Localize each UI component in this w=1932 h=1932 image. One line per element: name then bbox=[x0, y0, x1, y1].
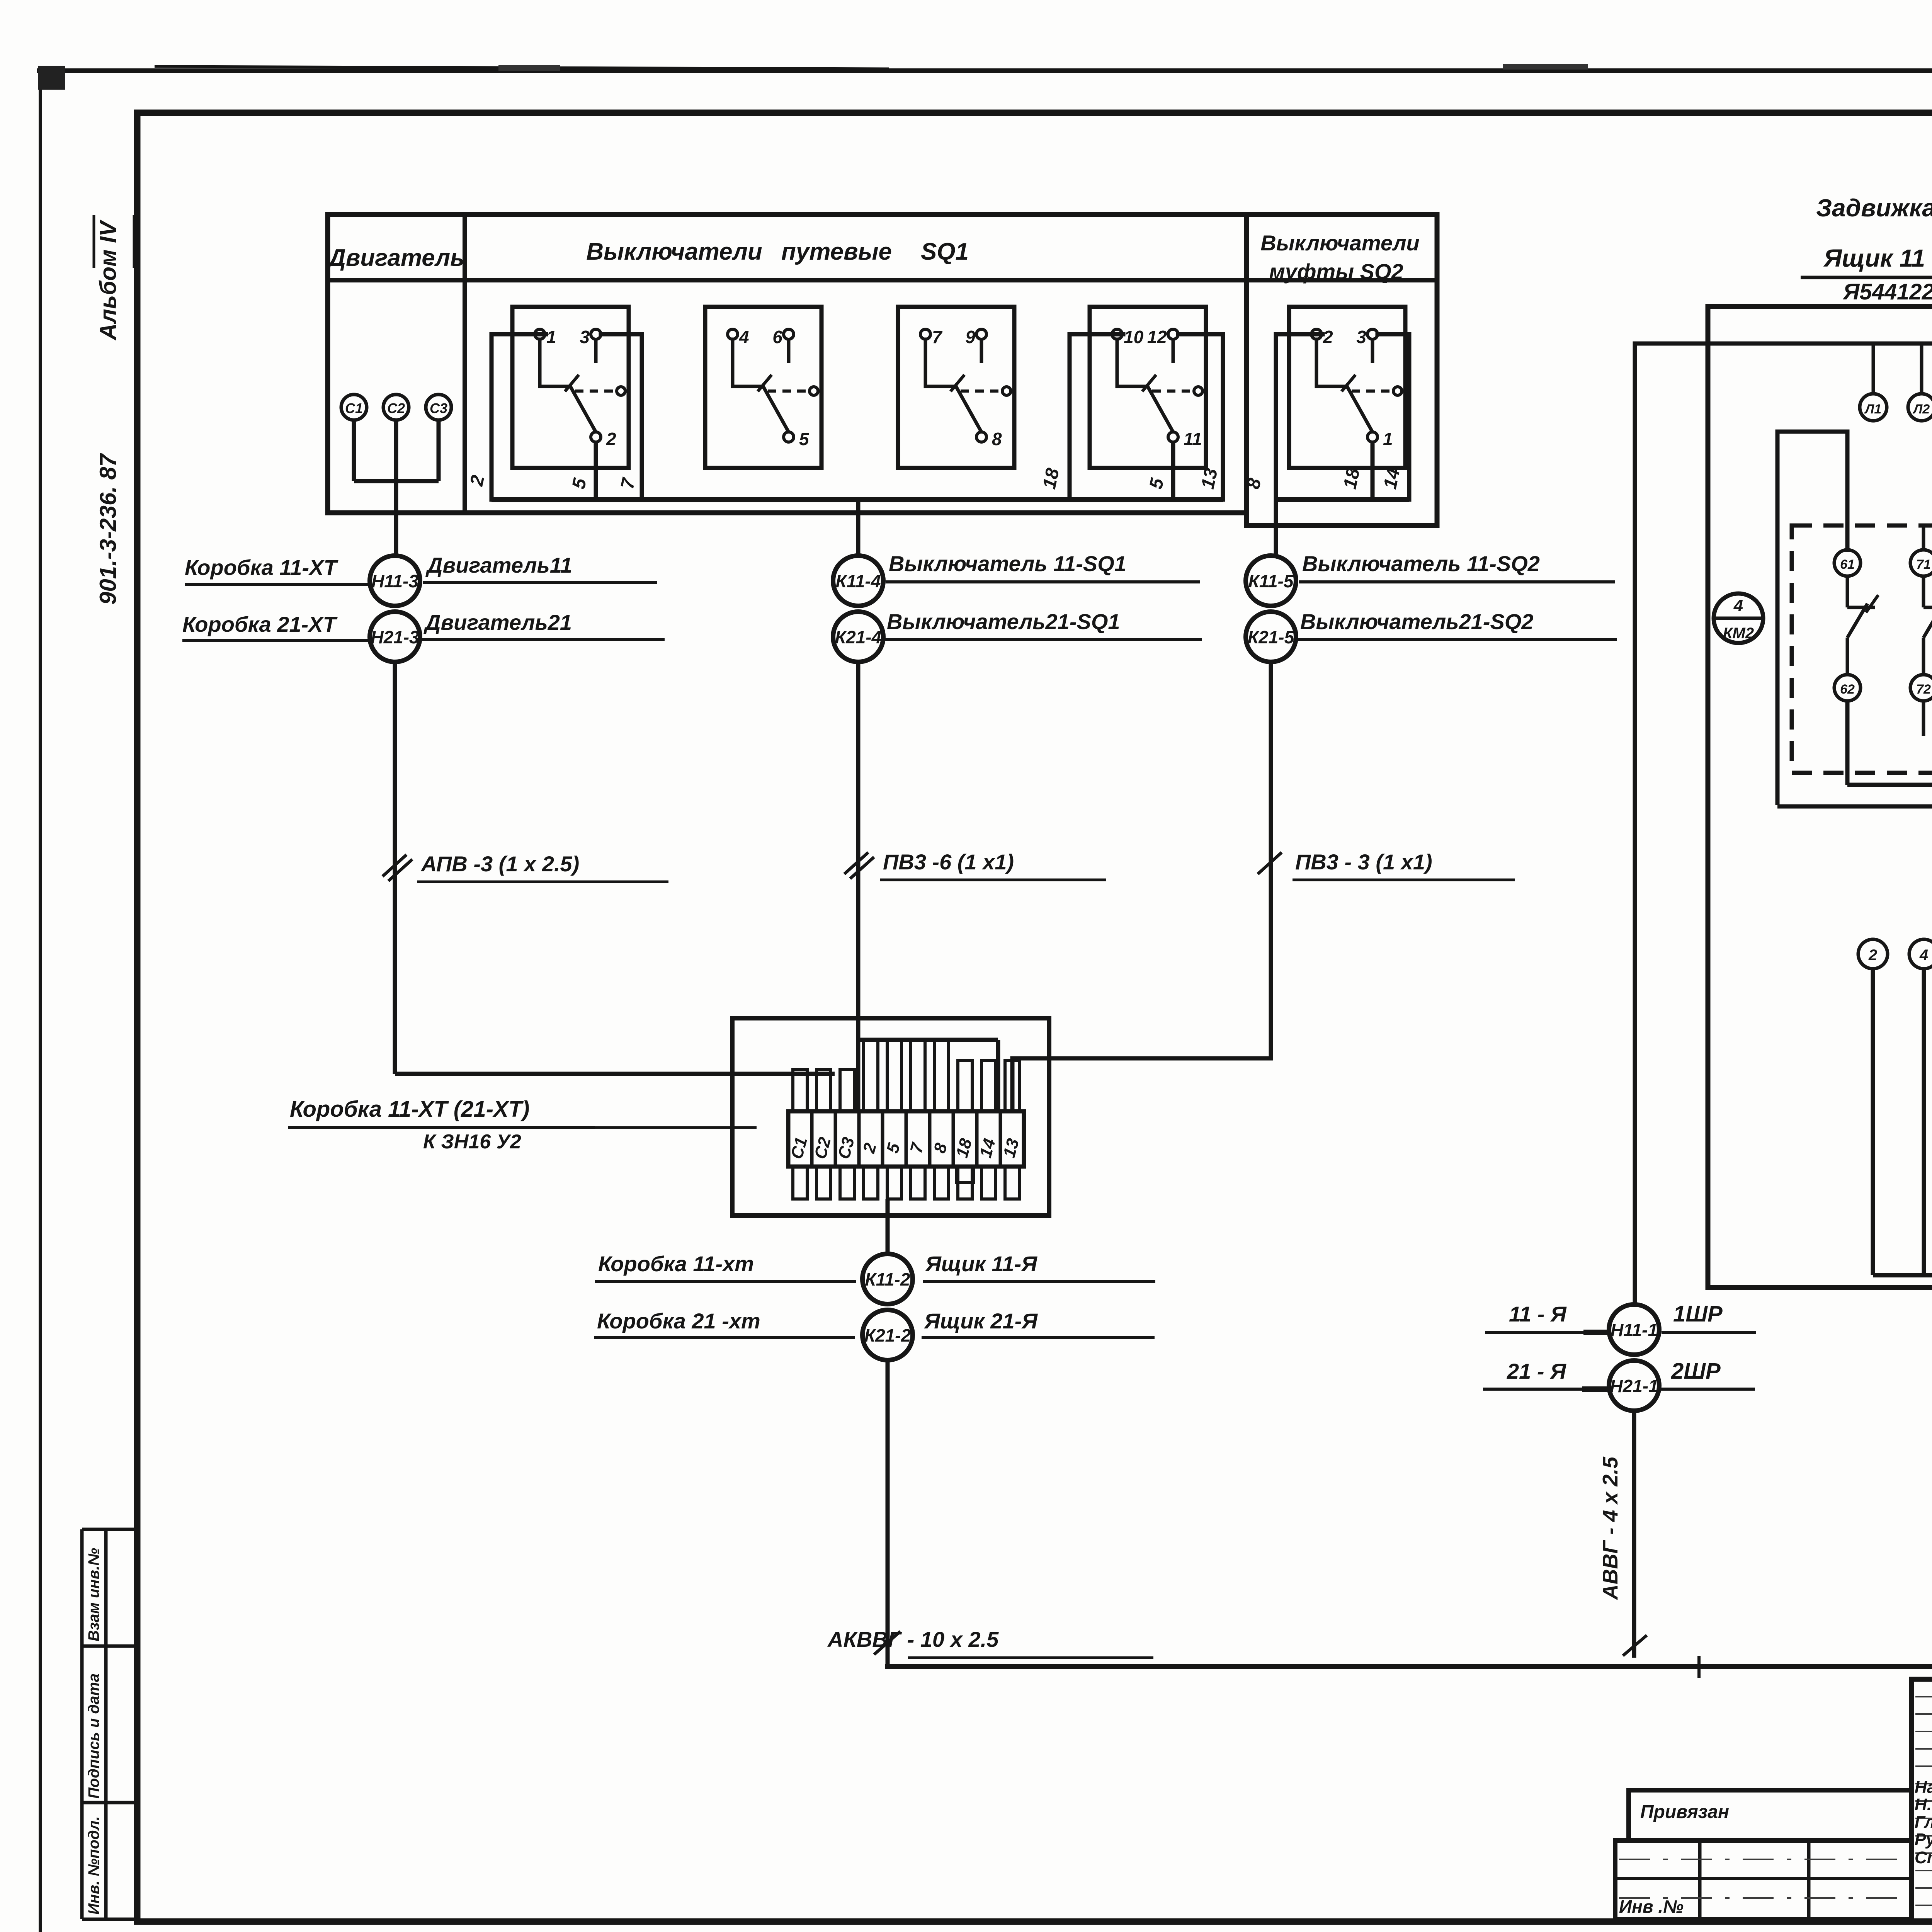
wire bbox=[394, 420, 398, 481]
connector H21-3 bbox=[370, 612, 420, 662]
wire switch5 left leg down to K11-5 bbox=[1276, 334, 1323, 556]
wire switch4 bottom leg bbox=[1171, 442, 1175, 500]
wire bus drop to K11-4 bbox=[856, 500, 861, 556]
wire C2 down to connector H11-3 bbox=[394, 481, 398, 556]
svg-text:Задвижка 11 ( 21): Задвижка 11 ( 21) bbox=[1816, 194, 1932, 222]
wire bbox=[1871, 969, 1875, 1275]
switch actuator dashed link bbox=[1352, 389, 1393, 393]
svg-text:Выключатели: Выключатели bbox=[1260, 231, 1420, 255]
wire switch4 left leg bbox=[1070, 334, 1123, 500]
wire stub bbox=[1371, 339, 1374, 363]
ruled row line bbox=[1915, 1713, 1932, 1715]
svg-text:11 - Я: 11 - Я bbox=[1509, 1302, 1567, 1326]
lamp circle L2 bbox=[1908, 394, 1932, 421]
ruled row line bbox=[1915, 1852, 1932, 1854]
svg-text:6: 6 bbox=[772, 327, 782, 347]
connector K21-5 bbox=[1246, 612, 1296, 662]
svg-text:Выключатель21-SQ1: Выключатель21-SQ1 bbox=[887, 609, 1120, 634]
svg-text:Привязан: Привязан bbox=[1640, 1802, 1729, 1822]
connector K11-2 bbox=[862, 1254, 913, 1304]
aux contact terminal 72 bbox=[1910, 675, 1932, 701]
svg-text:К21-2: К21-2 bbox=[864, 1325, 911, 1345]
svg-text:Ящик 21-Я: Ящик 21-Я bbox=[923, 1309, 1038, 1333]
svg-text:муфты SQ2: муфты SQ2 bbox=[1269, 259, 1403, 284]
svg-text:2: 2 bbox=[1868, 947, 1877, 964]
wire switch5 right leg bbox=[1378, 334, 1409, 500]
svg-text:путевые: путевые bbox=[781, 238, 892, 265]
svg-text:8: 8 bbox=[992, 429, 1002, 449]
aux contact terminal 71 bbox=[1910, 550, 1932, 576]
svg-text:Выключатель 11-SQ1: Выключатель 11-SQ1 bbox=[889, 551, 1126, 576]
wire K11-4 teeth bar bbox=[858, 1038, 998, 1042]
wire H21-1 down AVVG cable bbox=[1632, 1411, 1636, 1658]
table divider motor column bbox=[463, 214, 467, 513]
table SQ2 column outline bbox=[1247, 214, 1437, 526]
svg-text:SQ1: SQ1 bbox=[921, 238, 969, 265]
terminal tooth lower bbox=[793, 1167, 807, 1199]
wire switch1 bottom leg bbox=[594, 442, 598, 500]
ruled row line bbox=[1915, 1818, 1932, 1819]
wire riser from Л bus down to H11-1 bbox=[1633, 344, 1637, 1304]
svg-text:Гл.спец.: Гл.спец. bbox=[1915, 1813, 1932, 1832]
table header line bbox=[328, 278, 1437, 282]
svg-text:4: 4 bbox=[1733, 596, 1743, 615]
wire stub bbox=[1172, 339, 1175, 363]
svg-text:9: 9 bbox=[965, 327, 975, 347]
switch terminal 3 bbox=[591, 329, 601, 339]
svg-text:13: 13 bbox=[1197, 466, 1222, 491]
svg-text:12: 12 bbox=[1147, 327, 1167, 347]
svg-text:1ШР: 1ШР bbox=[1673, 1301, 1723, 1327]
wire switch4 right leg bbox=[1178, 334, 1223, 500]
border frame outer left edge bbox=[39, 71, 42, 1932]
dashed contact block outline bbox=[1792, 526, 1932, 773]
terminal tooth upper bbox=[864, 1040, 878, 1111]
terminal tooth upper bbox=[887, 1040, 901, 1111]
switch terminal 3 bbox=[1367, 329, 1378, 339]
svg-text:Выключатели: Выключатели bbox=[586, 238, 762, 265]
margin stamp table bbox=[80, 1529, 84, 1919]
connector K21-4 bbox=[833, 612, 883, 662]
wire contact2 bottom stub bbox=[1922, 701, 1925, 736]
ruled row line bbox=[1915, 1696, 1932, 1697]
switch blade bbox=[733, 339, 763, 386]
svg-text:Двигатель21: Двигатель21 bbox=[423, 610, 572, 634]
wire switch5 bottom leg bbox=[1371, 442, 1375, 500]
svg-text:4: 4 bbox=[1919, 947, 1928, 964]
connector H21-1 bbox=[1609, 1361, 1659, 1411]
terminal notch cell 18 bbox=[956, 1167, 974, 1182]
svg-text:Н21-1: Н21-1 bbox=[1610, 1376, 1658, 1396]
wire switch1 left leg bbox=[492, 334, 546, 500]
wire contact2 top stub bbox=[1922, 526, 1925, 550]
svg-text:10: 10 bbox=[1124, 327, 1144, 347]
motor terminal С2 bbox=[383, 395, 409, 420]
wire lamp drop L2 bbox=[1920, 344, 1923, 394]
switch terminal 4 bbox=[728, 329, 738, 339]
wire switch1 right leg bbox=[601, 334, 642, 500]
svg-text:18: 18 bbox=[1340, 466, 1364, 491]
svg-text:Н11-3: Н11-3 bbox=[371, 571, 418, 591]
svg-text:Коробка 11-ХТ: Коробка 11-ХТ bbox=[185, 555, 338, 580]
switch blade bbox=[925, 339, 956, 386]
wire SQ2 bus bbox=[1276, 497, 1409, 502]
svg-text:Я54412274: Я54412274 bbox=[1842, 279, 1932, 304]
terminal tooth lower bbox=[981, 1167, 996, 1199]
wire bbox=[437, 420, 441, 481]
terminal tooth lower bbox=[840, 1167, 854, 1199]
spare wire terminal 2 bbox=[1858, 939, 1888, 969]
wire contact1 bottom to 718 bbox=[1845, 701, 1850, 785]
wire K21-4 down to korobka box bbox=[856, 662, 861, 1111]
svg-text:Подпись и дата: Подпись и дата bbox=[85, 1673, 102, 1799]
svg-text:1: 1 bbox=[546, 327, 556, 347]
svg-text:Коробка 21 -хт: Коробка 21 -хт bbox=[597, 1309, 760, 1333]
svg-text:14: 14 bbox=[1380, 466, 1404, 491]
wire contact1 top elbow bbox=[1777, 432, 1847, 803]
svg-text:11: 11 bbox=[1184, 429, 1202, 449]
contact blade bbox=[1846, 576, 1849, 607]
svg-text:Выключатель21-SQ2: Выключатель21-SQ2 bbox=[1300, 609, 1534, 634]
svg-text:К ЗН16 У2: К ЗН16 У2 bbox=[423, 1131, 521, 1153]
svg-text:Коробка 11-ХТ (21-ХТ): Коробка 11-ХТ (21-ХТ) bbox=[290, 1097, 529, 1122]
svg-text:С2: С2 bbox=[387, 400, 405, 416]
terminal tooth upper bbox=[793, 1070, 807, 1111]
svg-text:К11-2: К11-2 bbox=[865, 1269, 910, 1289]
wire bbox=[352, 420, 356, 481]
switch actuator dashed link bbox=[768, 389, 809, 393]
terminal strip K3N16U2 bbox=[788, 1111, 1024, 1167]
revision table box bbox=[1615, 1840, 1912, 1919]
svg-text:901.-3-236. 87: 901.-3-236. 87 bbox=[95, 453, 121, 605]
wire K21-2 down to bus bbox=[886, 1360, 890, 1667]
ruled row line bbox=[1915, 1731, 1932, 1732]
terminal tooth lower bbox=[911, 1167, 925, 1199]
limit switch box contacts 7-9-8 bbox=[898, 307, 1014, 468]
svg-text:Л1: Л1 bbox=[1864, 402, 1881, 417]
signature table box bbox=[1912, 1679, 1932, 1922]
connector K11-5 bbox=[1246, 556, 1296, 606]
wire phase feed into C terminals bbox=[395, 1072, 835, 1076]
wire bbox=[1922, 969, 1926, 1275]
svg-text:Двигатель11: Двигатель11 bbox=[425, 553, 572, 577]
svg-text:АВВГ - 4 х 2.5: АВВГ - 4 х 2.5 bbox=[1598, 1456, 1622, 1600]
aux contact terminal 61 bbox=[1834, 550, 1861, 576]
svg-text:Альбом IV: Альбом IV bbox=[95, 219, 121, 341]
table of switches outline bbox=[328, 214, 1247, 513]
wire motor terminal junction bar bbox=[354, 479, 439, 483]
svg-text:4: 4 bbox=[739, 327, 749, 347]
svg-text:Ст.инж.: Ст.инж. bbox=[1915, 1848, 1932, 1867]
svg-text:Л2: Л2 bbox=[1912, 402, 1930, 417]
switch terminal 10 bbox=[1112, 329, 1122, 339]
ruled row line bbox=[1915, 1748, 1932, 1750]
switch terminal 9 bbox=[976, 329, 986, 339]
wire stub bbox=[980, 339, 983, 363]
svg-text:1: 1 bbox=[1383, 429, 1393, 449]
terminal tooth lower bbox=[864, 1167, 878, 1199]
svg-text:Ящик 11-Я: Ящик 11-Я bbox=[925, 1252, 1037, 1276]
svg-text:21 - Я: 21 - Я bbox=[1507, 1359, 1566, 1383]
svg-text:К11-4: К11-4 bbox=[836, 571, 881, 591]
svg-text:3: 3 bbox=[580, 327, 590, 347]
svg-text:АПВ -3 (1 х 2.5): АПВ -3 (1 х 2.5) bbox=[420, 852, 579, 876]
svg-text:72: 72 bbox=[1916, 682, 1931, 697]
svg-text:С3: С3 bbox=[430, 400, 447, 416]
svg-text:АКВВГ - 10 х 2.5: АКВВГ - 10 х 2.5 bbox=[827, 1627, 999, 1651]
limit switch box contacts 10-12-11 bbox=[1090, 307, 1206, 468]
connector K11-4 bbox=[833, 556, 883, 606]
svg-text:62: 62 bbox=[1840, 682, 1855, 697]
terminal tooth upper bbox=[958, 1061, 972, 1111]
switch terminal 1 bbox=[535, 329, 545, 339]
wire SQ1 bus bbox=[492, 497, 1223, 502]
switch terminal 11 bbox=[1168, 432, 1178, 442]
switch terminal 2 bbox=[1311, 329, 1321, 339]
cable mark AVVG bbox=[1623, 1635, 1647, 1656]
switch blade bbox=[1316, 339, 1347, 386]
switch terminal 12 bbox=[1168, 329, 1178, 339]
wire H21-3 down bbox=[393, 662, 397, 1074]
aux contact terminal 62 bbox=[1834, 675, 1861, 701]
motor terminal С3 bbox=[426, 395, 451, 420]
wire korobka to K11-2 bbox=[886, 1199, 890, 1254]
wire collector loop bbox=[1873, 1273, 1932, 1277]
terminal tooth upper bbox=[911, 1040, 925, 1111]
ruled row line bbox=[1915, 1835, 1932, 1837]
ruled row line bbox=[1915, 1905, 1932, 1906]
switch actuator dashed link bbox=[1152, 389, 1193, 393]
switch actuator dashed link bbox=[961, 389, 1002, 393]
ruled row line bbox=[1915, 1800, 1932, 1802]
limit switch box contacts 1-3-2 bbox=[512, 307, 629, 468]
svg-text:К21-4: К21-4 bbox=[835, 627, 881, 647]
connector H11-3 bbox=[370, 556, 420, 606]
svg-text:Коробка 11-хт: Коробка 11-хт bbox=[598, 1252, 754, 1276]
switch blade bbox=[540, 339, 570, 386]
svg-text:К11-5: К11-5 bbox=[1248, 571, 1294, 591]
terminal tooth lower bbox=[958, 1167, 972, 1199]
wire stub bbox=[594, 339, 598, 363]
privyazan box bbox=[1629, 1790, 1912, 1840]
border frame outer top edge bbox=[37, 68, 1932, 73]
svg-text:Двигатель: Двигатель bbox=[327, 245, 464, 271]
terminal tooth lower bbox=[816, 1167, 831, 1199]
terminal tooth upper bbox=[840, 1070, 854, 1111]
terminal tooth upper bbox=[1005, 1061, 1019, 1111]
terminal tooth upper bbox=[981, 1061, 996, 1111]
switch terminal 6 bbox=[784, 329, 794, 339]
svg-text:2: 2 bbox=[1323, 327, 1333, 347]
switch terminal 1 bbox=[1367, 432, 1378, 442]
svg-text:Коробка 21-ХТ: Коробка 21-ХТ bbox=[182, 612, 338, 636]
terminal tooth upper bbox=[934, 1040, 949, 1111]
svg-text:Взам инв.№: Взам инв.№ bbox=[85, 1548, 102, 1641]
svg-text:Н21-3: Н21-3 bbox=[371, 627, 419, 647]
cable mark AKVVG-10 bbox=[874, 1631, 900, 1655]
switch terminal 2 bbox=[591, 432, 601, 442]
junction box Korobka 11-XT K3N16U2 bbox=[732, 1018, 1049, 1216]
svg-text:61: 61 bbox=[1840, 557, 1855, 572]
switch terminal 5 bbox=[784, 432, 794, 442]
connector K21-2 bbox=[862, 1310, 913, 1360]
svg-text:Рук. Бр.: Рук. Бр. bbox=[1915, 1830, 1932, 1849]
wire stub bbox=[787, 339, 791, 363]
contactor designator 4/KM2 bbox=[1714, 594, 1763, 643]
motor terminal С1 bbox=[341, 395, 367, 420]
svg-text:ПВ3 -6 (1 х1): ПВ3 -6 (1 х1) bbox=[883, 850, 1014, 874]
corner blob top-left bbox=[38, 66, 65, 90]
svg-text:Выключатель 11-SQ2: Выключатель 11-SQ2 bbox=[1302, 551, 1540, 576]
wire teeth bar drop bbox=[996, 1040, 1000, 1111]
ruled row line bbox=[1915, 1765, 1932, 1767]
svg-text:18: 18 bbox=[1039, 466, 1063, 491]
ruled row line bbox=[1915, 1887, 1932, 1889]
junction tick bbox=[1697, 1656, 1701, 1678]
limit switch box contacts 4-6-5 bbox=[705, 307, 821, 468]
lamp circle L1 bbox=[1860, 394, 1887, 421]
svg-text:Инв .№: Инв .№ bbox=[1619, 1896, 1684, 1917]
limit switch box contacts 2-3-1 bbox=[1289, 307, 1405, 468]
leader line to box bbox=[595, 1126, 757, 1129]
svg-text:7: 7 bbox=[932, 327, 943, 347]
wire bottom bus bbox=[888, 1287, 1932, 1667]
svg-text:Н11-1: Н11-1 bbox=[1611, 1320, 1658, 1340]
cable mark APV-3 bbox=[383, 855, 406, 876]
switch terminal 7 bbox=[920, 329, 930, 339]
svg-text:Нач.отд.: Нач.отд. bbox=[1915, 1778, 1932, 1797]
cable mark PV3-3 bbox=[1258, 852, 1282, 874]
svg-text:3: 3 bbox=[1356, 327, 1366, 347]
wire net 718 bbox=[1847, 783, 1932, 787]
contact blade bbox=[1922, 576, 1925, 607]
terminal tooth upper bbox=[816, 1070, 831, 1111]
switch terminal 8 bbox=[976, 432, 986, 442]
terminal tooth lower bbox=[1005, 1167, 1019, 1199]
cable mark PV3-6 bbox=[844, 852, 868, 874]
svg-text:2ШР: 2ШР bbox=[1671, 1359, 1721, 1384]
terminal tooth lower bbox=[887, 1167, 901, 1199]
yaschik enclosure box bbox=[1708, 306, 1932, 1287]
spare wire terminal 4 bbox=[1909, 939, 1932, 969]
ruled row line bbox=[1915, 1783, 1932, 1784]
wire lamp drop L1 bbox=[1872, 344, 1875, 394]
svg-text:71: 71 bbox=[1916, 557, 1931, 572]
wire net 717 bbox=[1777, 804, 1932, 809]
svg-text:К21-5: К21-5 bbox=[1248, 627, 1295, 647]
svg-text:КМ2: КМ2 bbox=[1723, 625, 1754, 642]
svg-text:5: 5 bbox=[799, 429, 810, 449]
svg-text:ПВ3 - 3 (1 х1): ПВ3 - 3 (1 х1) bbox=[1295, 850, 1432, 874]
svg-text:Инв. №подл.: Инв. №подл. bbox=[85, 1816, 102, 1915]
svg-text:2: 2 bbox=[606, 429, 616, 449]
ruled row line bbox=[1915, 1870, 1932, 1871]
svg-text:С1: С1 bbox=[345, 400, 363, 416]
connector H11-1 bbox=[1609, 1304, 1659, 1355]
wire lamp bus bbox=[1635, 342, 1932, 346]
wire K21-5 down bbox=[1269, 662, 1273, 1058]
switch blade bbox=[1117, 339, 1148, 386]
svg-text:Ящик 11 (21): Ящик 11 (21) bbox=[1823, 244, 1932, 272]
wire K21-5 horizontal into korobka bbox=[1012, 1058, 1271, 1111]
terminal tooth lower bbox=[934, 1167, 949, 1199]
switch actuator dashed link bbox=[575, 389, 616, 393]
svg-text:Н.конт.: Н.конт. bbox=[1915, 1795, 1932, 1814]
